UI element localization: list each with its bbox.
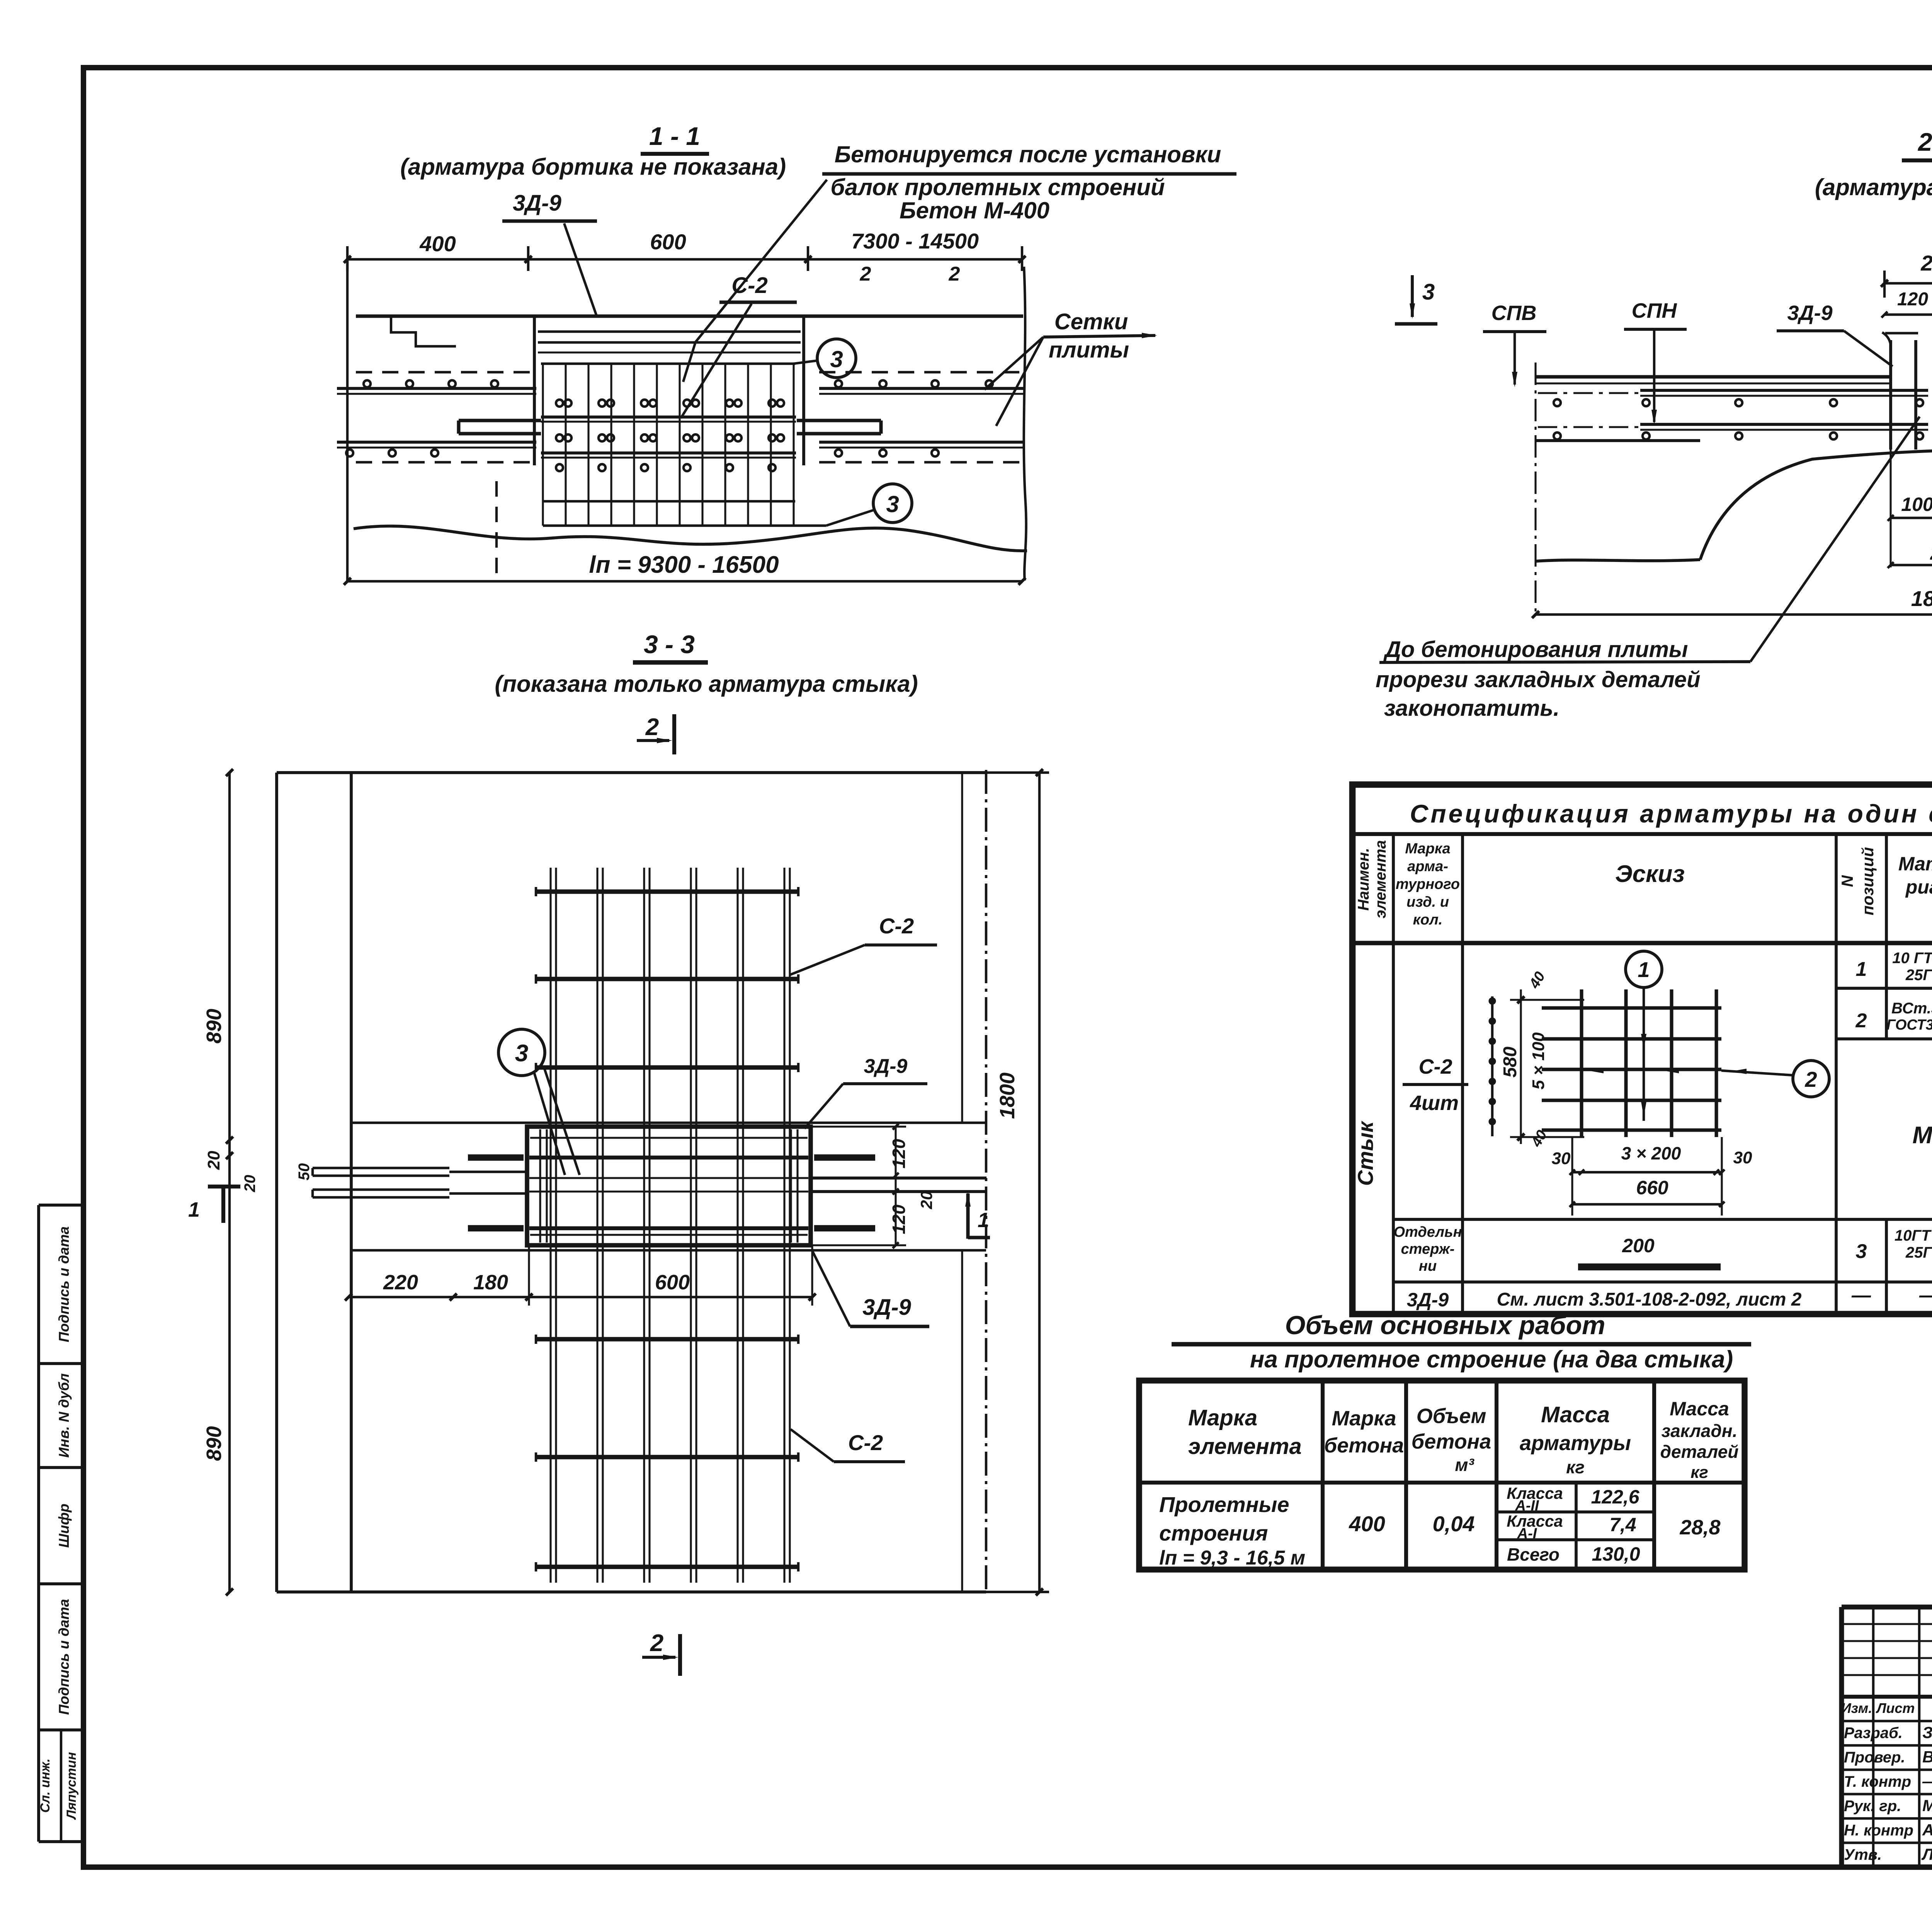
svg-text:3 × 200: 3 × 200 bbox=[1621, 1143, 1681, 1163]
svg-text:изд. и: изд. и bbox=[1406, 894, 1449, 910]
svg-text:3Д-9: 3Д-9 bbox=[513, 191, 561, 216]
svg-text:балок пролетных строений: балок пролетных строений bbox=[830, 174, 1165, 200]
svg-text:3: 3 bbox=[886, 491, 899, 517]
svg-text:Спецификация арматуры на: Спецификация арматуры на один стык плиты bbox=[1410, 799, 1932, 828]
svg-text:1: 1 bbox=[1638, 957, 1650, 982]
svg-text:—: — bbox=[1919, 1284, 1932, 1306]
svg-text:Масса: Масса bbox=[1670, 1398, 1729, 1420]
svg-text:400: 400 bbox=[1349, 1512, 1385, 1536]
svg-text:220: 220 bbox=[383, 1271, 418, 1294]
svg-text:2 - 2: 2 - 2 bbox=[1917, 128, 1932, 156]
svg-text:3Д-9: 3Д-9 bbox=[862, 1295, 911, 1320]
svg-text:25Г2С: 25Г2С bbox=[1905, 1244, 1932, 1261]
svg-text:А-I: А-I bbox=[1517, 1525, 1537, 1542]
svg-text:—: — bbox=[1851, 1284, 1871, 1306]
svg-text:элемента: элемента bbox=[1372, 840, 1389, 918]
svg-text:кг: кг bbox=[1690, 1463, 1708, 1482]
svg-text:законопатить.: законопатить. bbox=[1384, 696, 1560, 721]
svg-text:3: 3 bbox=[1422, 279, 1435, 305]
svg-text:Стык: Стык bbox=[1353, 1120, 1378, 1186]
svg-text:10ГТ или: 10ГТ или bbox=[1895, 1227, 1932, 1244]
svg-text:См. лист 3.501-108-2-092, лист: См. лист 3.501-108-2-092, лист 2 bbox=[1497, 1289, 1802, 1310]
svg-text:Т. контр: Т. контр bbox=[1844, 1773, 1911, 1790]
svg-text:Васильева: Васильева bbox=[1922, 1748, 1932, 1766]
svg-text:Лист: Лист bbox=[1876, 1700, 1915, 1716]
svg-text:220: 220 bbox=[1930, 542, 1932, 564]
svg-text:Ляпустин: Ляпустин bbox=[64, 1752, 79, 1820]
svg-text:ни: ни bbox=[1419, 1258, 1437, 1274]
svg-text:200: 200 bbox=[1622, 1235, 1655, 1256]
svg-text:3 - 3: 3 - 3 bbox=[644, 630, 695, 659]
svg-text:СПВ: СПВ bbox=[1492, 301, 1537, 325]
svg-text:1800: 1800 bbox=[1911, 586, 1932, 611]
svg-text:Марка: Марка bbox=[1405, 841, 1450, 857]
svg-text:1 - 1: 1 - 1 bbox=[649, 122, 700, 150]
svg-text:Марка: Марка bbox=[1332, 1407, 1396, 1430]
svg-text:10 ГТ или: 10 ГТ или bbox=[1892, 950, 1932, 967]
svg-text:Подпись и дата: Подпись и дата bbox=[56, 1599, 72, 1715]
svg-text:Рук. гр.: Рук. гр. bbox=[1844, 1798, 1901, 1815]
svg-text:турного: турного bbox=[1396, 876, 1460, 892]
svg-text:0,04: 0,04 bbox=[1433, 1512, 1475, 1536]
svg-text:Объем: Объем bbox=[1417, 1405, 1486, 1428]
svg-text:7,4: 7,4 bbox=[1609, 1514, 1636, 1536]
svg-text:бетона: бетона bbox=[1412, 1430, 1491, 1453]
svg-text:Эскиз: Эскиз bbox=[1615, 861, 1685, 887]
svg-text:ГОСТ380-71: ГОСТ380-71 bbox=[1886, 1017, 1932, 1033]
svg-text:Масса сетки - 12,7кг: Масса сетки - 12,7кг bbox=[1912, 1122, 1932, 1149]
svg-text:5 × 100: 5 × 100 bbox=[1529, 1032, 1548, 1090]
svg-text:30: 30 bbox=[1552, 1149, 1571, 1168]
svg-text:Пролетные: Пролетные bbox=[1159, 1492, 1289, 1517]
svg-text:стерж-: стерж- bbox=[1401, 1241, 1455, 1257]
svg-text:130,0: 130,0 bbox=[1592, 1543, 1640, 1565]
svg-text:(арматура бортика не показан: (арматура бортика не показана) bbox=[400, 154, 786, 180]
svg-text:Бетон М-400: Бетон М-400 bbox=[900, 197, 1049, 223]
svg-text:3: 3 bbox=[830, 346, 843, 372]
svg-text:С-2: С-2 bbox=[1418, 1055, 1452, 1078]
svg-text:3Д-9: 3Д-9 bbox=[864, 1055, 908, 1078]
svg-text:кол.: кол. bbox=[1413, 912, 1443, 928]
svg-text:20: 20 bbox=[241, 1175, 259, 1193]
svg-text:Шифр: Шифр bbox=[56, 1503, 72, 1548]
svg-text:С-2: С-2 bbox=[848, 1430, 883, 1455]
svg-text:25Г2С: 25Г2С bbox=[1905, 967, 1932, 984]
svg-text:Наимен.: Наимен. bbox=[1355, 848, 1372, 911]
svg-text:3: 3 bbox=[515, 1040, 528, 1067]
svg-text:Отдельн: Отдельн bbox=[1393, 1224, 1462, 1240]
svg-text:Мате-: Мате- bbox=[1898, 853, 1932, 875]
svg-text:ВСт.3пс2: ВСт.3пс2 bbox=[1891, 1000, 1932, 1017]
svg-text:А-II: А-II bbox=[1515, 1498, 1539, 1514]
svg-text:Инв. N дубл: Инв. N дубл bbox=[56, 1373, 72, 1457]
svg-text:—: — bbox=[1922, 1772, 1932, 1790]
svg-text:2: 2 bbox=[650, 1630, 663, 1657]
svg-text:С-2: С-2 bbox=[879, 914, 914, 938]
svg-text:элемента: элемента bbox=[1188, 1434, 1302, 1459]
svg-text:600: 600 bbox=[650, 230, 686, 254]
svg-text:Объем основных работ: Объем основных работ bbox=[1285, 1311, 1605, 1340]
svg-text:риал: риал bbox=[1905, 876, 1932, 898]
svg-text:СПН: СПН bbox=[1632, 299, 1677, 322]
svg-text:Масса: Масса bbox=[1541, 1402, 1610, 1427]
svg-text:Подпись и дата: Подпись и дата bbox=[56, 1226, 72, 1342]
svg-text:100: 100 bbox=[1901, 494, 1932, 515]
svg-text:50: 50 bbox=[296, 1163, 313, 1181]
svg-text:на пролетное строение (на дв: на пролетное строение (на два стыка) bbox=[1250, 1346, 1733, 1373]
svg-text:2: 2 bbox=[645, 714, 659, 741]
svg-text:1: 1 bbox=[1856, 958, 1867, 981]
svg-text:арматуры: арматуры bbox=[1520, 1432, 1631, 1455]
svg-text:122,6: 122,6 bbox=[1591, 1486, 1639, 1508]
svg-text:Захарова: Захарова bbox=[1922, 1723, 1932, 1742]
svg-text:Всего: Всего bbox=[1507, 1544, 1560, 1565]
svg-text:строения: строения bbox=[1159, 1521, 1268, 1545]
svg-text:Сл. инж.: Сл. инж. bbox=[38, 1759, 53, 1813]
svg-text:120: 120 bbox=[889, 1139, 909, 1168]
svg-text:120: 120 bbox=[1897, 289, 1928, 310]
svg-text:(показана только арматура с: (показана только арматура стыка) bbox=[495, 671, 918, 697]
svg-text:бетона: бетона bbox=[1324, 1434, 1404, 1457]
svg-text:Утв.: Утв. bbox=[1844, 1846, 1882, 1863]
svg-text:закладн.: закладн. bbox=[1662, 1421, 1738, 1441]
svg-text:660: 660 bbox=[1636, 1177, 1668, 1199]
svg-text:деталей: деталей bbox=[1660, 1442, 1739, 1462]
svg-text:1: 1 bbox=[978, 1209, 989, 1232]
svg-text:Марка: Марка bbox=[1188, 1405, 1257, 1430]
svg-text:Акулова: Акулова bbox=[1922, 1821, 1932, 1839]
svg-text:890: 890 bbox=[202, 1009, 226, 1044]
svg-text:Сетки: Сетки bbox=[1054, 309, 1128, 334]
svg-text:Махновская: Махновская bbox=[1922, 1796, 1932, 1815]
svg-text:Ляпустин: Ляпустин bbox=[1921, 1845, 1932, 1863]
svg-text:1: 1 bbox=[188, 1198, 200, 1221]
svg-text:прорези закладных деталей: прорези закладных деталей bbox=[1376, 667, 1701, 692]
svg-text:600: 600 bbox=[655, 1271, 690, 1294]
svg-text:3Д-9: 3Д-9 bbox=[1787, 301, 1832, 325]
svg-text:2: 2 bbox=[1804, 1067, 1817, 1091]
svg-text:кг: кг bbox=[1566, 1457, 1585, 1477]
svg-text:580: 580 bbox=[1500, 1047, 1520, 1078]
svg-text:3: 3 bbox=[1856, 1240, 1867, 1263]
svg-text:арма-: арма- bbox=[1407, 858, 1448, 875]
svg-text:120: 120 bbox=[889, 1204, 909, 1234]
svg-text:Бетонируется после установк: Бетонируется после установки bbox=[835, 141, 1221, 167]
svg-text:lп = 9300 - 16500: lп = 9300 - 16500 bbox=[589, 552, 779, 578]
svg-text:7300 - 14500: 7300 - 14500 bbox=[851, 229, 979, 253]
svg-text:2: 2 bbox=[860, 263, 871, 285]
svg-text:плиты: плиты bbox=[1049, 337, 1129, 363]
svg-text:Провер.: Провер. bbox=[1844, 1749, 1905, 1766]
svg-text:20: 20 bbox=[204, 1151, 223, 1170]
svg-text:1800: 1800 bbox=[996, 1073, 1019, 1119]
svg-text:4шт: 4шт bbox=[1410, 1091, 1459, 1115]
svg-text:2: 2 bbox=[1855, 1010, 1867, 1032]
svg-text:260: 260 bbox=[1920, 251, 1932, 275]
svg-text:3Д-9: 3Д-9 bbox=[1407, 1289, 1449, 1311]
svg-text:м³: м³ bbox=[1455, 1455, 1475, 1475]
svg-text:180: 180 bbox=[473, 1271, 508, 1294]
svg-text:20: 20 bbox=[917, 1191, 935, 1210]
svg-text:28,8: 28,8 bbox=[1679, 1516, 1720, 1539]
svg-text:позиций: позиций bbox=[1859, 847, 1877, 916]
svg-text:lп = 9,3 - 16,5 м: lп = 9,3 - 16,5 м bbox=[1159, 1547, 1305, 1569]
svg-text:Н. контр: Н. контр bbox=[1844, 1822, 1913, 1839]
svg-text:30: 30 bbox=[1733, 1148, 1752, 1167]
svg-text:До бетонирования плиты: До бетонирования плиты bbox=[1383, 637, 1688, 662]
svg-text:Разраб.: Разраб. bbox=[1844, 1725, 1903, 1742]
svg-text:400: 400 bbox=[419, 232, 456, 256]
svg-text:2: 2 bbox=[949, 263, 960, 285]
svg-text:Изм.: Изм. bbox=[1841, 1700, 1872, 1716]
svg-text:(арматура бортика не показа: (арматура бортика не показана) bbox=[1815, 174, 1932, 200]
svg-text:С-2: С-2 bbox=[731, 273, 767, 298]
svg-text:890: 890 bbox=[202, 1426, 226, 1461]
svg-text:N: N bbox=[1838, 875, 1856, 887]
